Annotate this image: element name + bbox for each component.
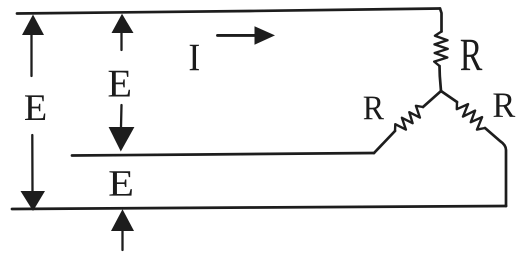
arrowhead E2 down at middle wire: [109, 127, 135, 152]
wire top horizontal: [17, 9, 440, 14]
dimension E2 stem lower: [120, 105, 123, 127]
resistor R3 (right diagonal): [457, 102, 485, 130]
wire right resistor to right-side vertical: [485, 128, 506, 206]
node star centre: [440, 90, 443, 93]
arrowhead current I right: [255, 26, 276, 45]
label E2: [109, 71, 130, 97]
wire left resistor to middle wire bend: [374, 131, 395, 153]
label R2: [364, 97, 384, 120]
wire bottom horizontal: [12, 206, 506, 209]
current arrow I shaft: [218, 34, 257, 37]
dimension E2 stem upper: [120, 33, 122, 50]
arrowhead E1 up at top wire: [22, 15, 44, 36]
dimension E1 stem lower: [31, 135, 34, 191]
arrowhead E3 up at bottom wire: [111, 209, 134, 231]
dimension E1 stem upper: [30, 35, 32, 76]
label R3: [493, 93, 515, 116]
wire top-right vertical drop: [440, 9, 442, 32]
resistor R2 (left diagonal): [395, 106, 423, 131]
wire resistor R1 to node: [440, 66, 442, 91]
wire node to left resistor: [423, 91, 441, 107]
resistor R1 (top vertical): [434, 32, 448, 67]
wire middle horizontal: [72, 153, 374, 156]
label R1: [461, 40, 483, 70]
arrowhead E2 up at top wire: [112, 14, 134, 33]
label E1: [25, 95, 45, 120]
label I current: [190, 45, 199, 71]
label E3: [109, 171, 131, 195]
dimension E3 stem below bottom wire: [121, 231, 123, 250]
arrowhead E1 down at bottom wire: [21, 191, 46, 211]
wire node to right resistor: [441, 91, 457, 102]
